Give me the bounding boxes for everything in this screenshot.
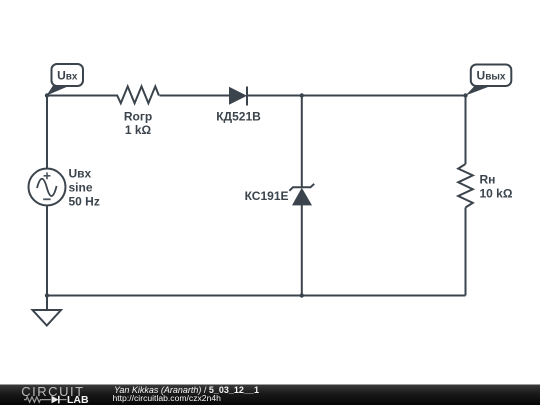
junction: input node — [45, 93, 49, 97]
node label Uвых — [466, 65, 512, 96]
junction: output node — [463, 93, 467, 97]
svg-text:http://circuitlab.com/czx2n4h: http://circuitlab.com/czx2n4h — [113, 393, 222, 403]
ground — [33, 296, 62, 326]
svg-text:Uвых: Uвых — [477, 69, 506, 83]
junction: ground node — [45, 293, 49, 297]
svg-text:1 kΩ: 1 kΩ — [125, 123, 152, 137]
svg-text:Rогр: Rогр — [124, 109, 152, 123]
wire: left vertical — [46, 96, 48, 296]
svg-text:10 kΩ: 10 kΩ — [480, 186, 513, 200]
zener diode D2 КС191Е — [289, 184, 314, 206]
svg-text:КД521В: КД521В — [216, 109, 261, 123]
svg-text:КС191Е: КС191Е — [245, 189, 289, 203]
wire: bottom rail — [47, 295, 466, 297]
svg-text:Uвх: Uвх — [69, 166, 92, 180]
svg-text:Rн: Rн — [480, 173, 496, 187]
junction: diode-zener node — [300, 93, 304, 97]
voltage source V1 Uвх — [29, 169, 66, 206]
CircuitLab logo — [21, 384, 89, 405]
junction: zener-bottom node — [300, 293, 304, 297]
svg-text:LAB: LAB — [67, 394, 89, 405]
diode D1 КД521В — [229, 87, 247, 106]
svg-text:sine: sine — [69, 180, 93, 194]
svg-text:50 Hz: 50 Hz — [69, 194, 100, 208]
node label Uвх — [47, 64, 84, 96]
wire: right vertical — [465, 96, 467, 296]
wire: middle vertical — [301, 96, 303, 296]
resistor R2 Rн — [458, 164, 473, 208]
footer bar — [0, 385, 540, 405]
wire: top rail — [47, 95, 466, 97]
svg-text:Uвх: Uвх — [57, 68, 78, 82]
resistor R1 Rогр — [117, 86, 159, 103]
